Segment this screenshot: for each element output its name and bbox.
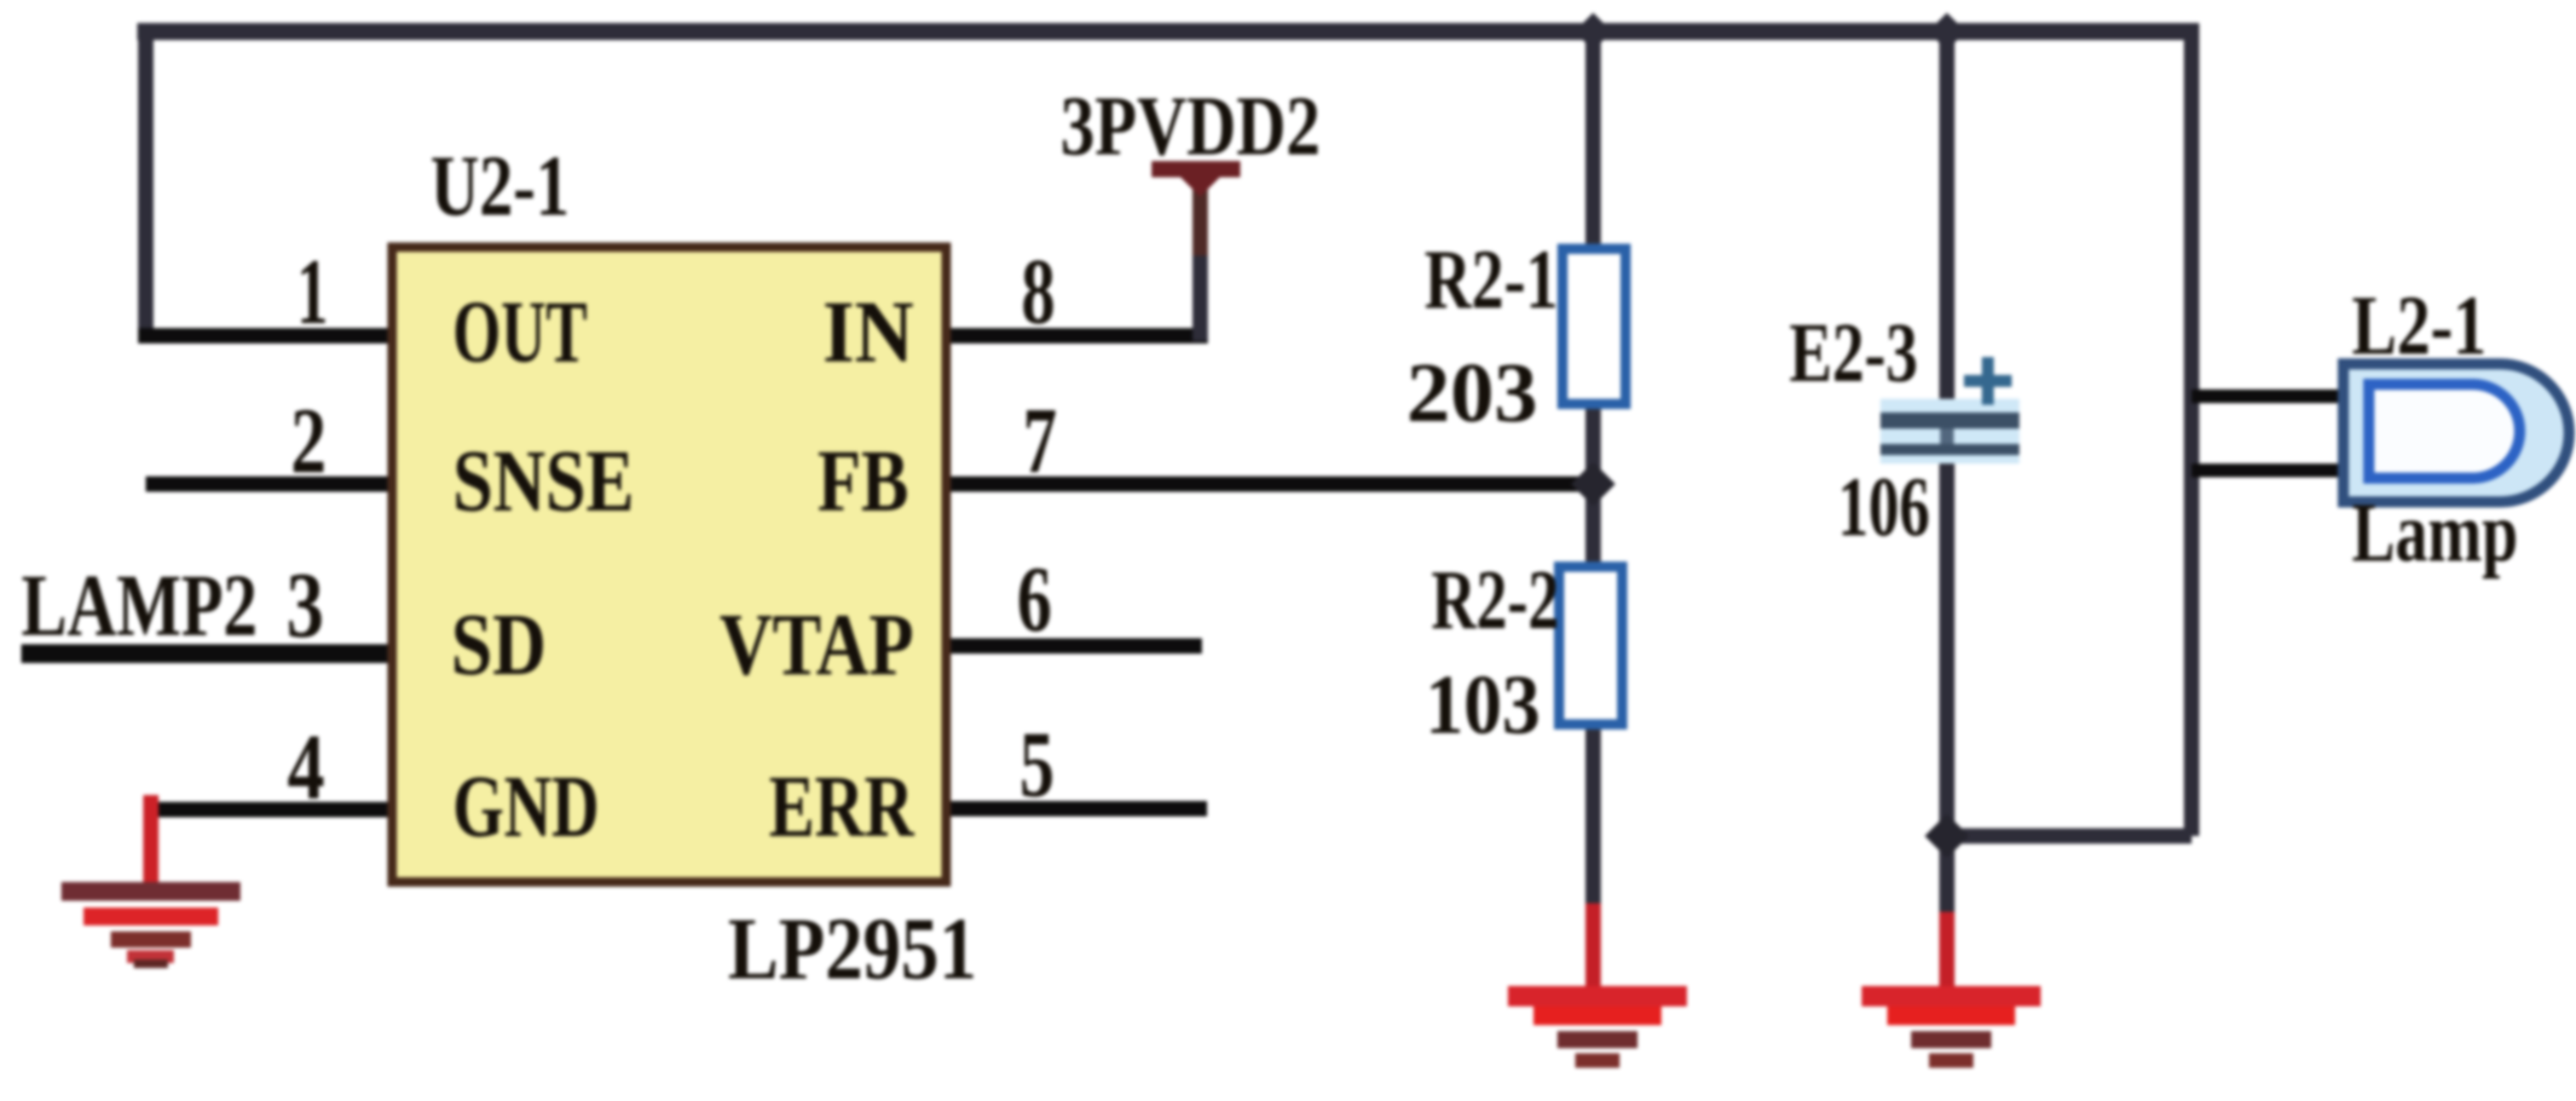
svg-text:Lamp: Lamp — [2352, 485, 2518, 579]
wire pin 1 OUT — [138, 328, 390, 343]
wire pin 5 ERR stub — [946, 801, 1207, 816]
junction FB node — [1571, 462, 1615, 506]
wire lamp top lead — [2192, 389, 2345, 403]
power 3PVDD2 symbol — [1152, 161, 1240, 197]
svg-text:IN: IN — [823, 283, 914, 381]
wire lamp bottom lead — [2192, 464, 2345, 477]
wire lamp branch vertical — [2184, 32, 2199, 836]
wire top rail — [137, 23, 2199, 40]
svg-text:3PVDD2: 3PVDD2 — [1060, 78, 1320, 173]
junction cap bottom node — [1925, 814, 1969, 858]
svg-text:E2-3: E2-3 — [1789, 305, 1918, 400]
svg-text:6: 6 — [1017, 547, 1052, 651]
op-amp U1 IC body LP2951 — [392, 247, 946, 882]
svg-text:ERR: ERR — [769, 758, 915, 856]
svg-text:106: 106 — [1838, 459, 1930, 554]
lamp L2-1 — [2343, 364, 2569, 502]
ground under R2-2 — [1508, 903, 1687, 1068]
svg-text:L2-1: L2-1 — [2352, 278, 2486, 372]
wire bottom horizontal cap to lamp branch — [1947, 828, 2192, 844]
svg-text:VTAP: VTAP — [719, 596, 914, 694]
svg-text:GND: GND — [453, 758, 599, 856]
svg-text:U2-1: U2-1 — [430, 138, 569, 234]
svg-text:SD: SD — [451, 596, 546, 694]
svg-text:3: 3 — [286, 553, 324, 657]
wire pin 7 FB to divider node — [946, 476, 1593, 492]
wire pin 8 IN — [946, 328, 1208, 343]
svg-text:2: 2 — [291, 389, 326, 493]
wire pin 2 SNSE — [146, 476, 390, 492]
svg-text:SNSE: SNSE — [453, 432, 634, 530]
svg-text:LAMP2: LAMP2 — [21, 556, 257, 654]
svg-text:4: 4 — [287, 715, 325, 819]
svg-text:203: 203 — [1406, 345, 1538, 440]
wire pin 4 GND — [143, 802, 390, 817]
wire left vertical from rail to pin 1 — [138, 23, 153, 336]
svg-text:8: 8 — [1021, 239, 1055, 343]
svg-text:OUT: OUT — [453, 283, 587, 381]
wire resistor divider column — [1585, 32, 1601, 909]
resistor R2-1 — [1562, 249, 1626, 404]
svg-text:R2-1: R2-1 — [1424, 232, 1558, 326]
junction rail and R2-1 — [1574, 13, 1612, 50]
capacitor E2-3 — [1880, 357, 2019, 464]
ground under capacitor — [1862, 912, 2041, 1068]
svg-text:5: 5 — [1019, 712, 1054, 816]
wire 3PVDD2 stub down to pin 8 — [1193, 176, 1208, 261]
svg-text:R2-2: R2-2 — [1431, 552, 1559, 647]
wire pin 3 SD net LAMP2 — [21, 644, 390, 663]
resistor R2-2 — [1559, 567, 1622, 724]
wire capacitor column — [1939, 32, 1955, 921]
svg-text:LP2951: LP2951 — [728, 900, 977, 998]
svg-text:103: 103 — [1425, 657, 1540, 752]
junction rail and capacitor column — [1928, 13, 1966, 50]
wire pin 6 VTAP stub — [946, 638, 1202, 654]
ground at pin 4 — [61, 795, 240, 968]
svg-text:FB: FB — [817, 432, 909, 530]
svg-text:7: 7 — [1023, 389, 1057, 493]
svg-text:1: 1 — [297, 239, 328, 343]
